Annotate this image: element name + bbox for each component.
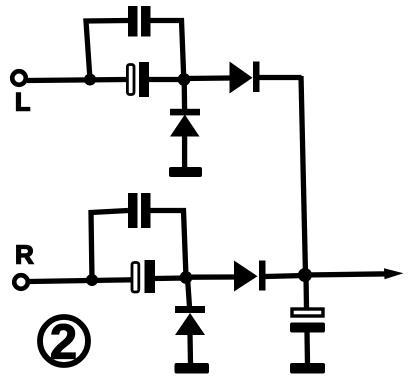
wire: D4 to node E xyxy=(266,276,305,277)
wire: C2 to node B xyxy=(149,77,184,82)
input terminal R xyxy=(14,275,28,289)
node C junction xyxy=(86,274,98,286)
ground (output) xyxy=(290,363,325,374)
capacitor C1 xyxy=(128,6,151,37)
input terminal L xyxy=(12,71,26,85)
node E output junction xyxy=(298,268,312,282)
wire: node D to D4 xyxy=(186,274,235,280)
wire: C1 to node B via corner xyxy=(151,21,184,80)
diode D2 (series) xyxy=(230,62,260,94)
wire: C5 to ground xyxy=(304,332,310,364)
diode D4 (series) xyxy=(234,261,266,292)
wire: node D down to D3 xyxy=(188,278,190,308)
svg-text:L: L xyxy=(15,89,30,117)
capacitor C4 (electrolytic, hollow + plate) xyxy=(132,260,155,293)
label R xyxy=(15,240,34,270)
node D junction xyxy=(180,271,193,284)
svg-text:2: 2 xyxy=(50,316,77,370)
ground (L) xyxy=(169,167,202,177)
wire: node C up to C3 branch xyxy=(91,211,128,281)
wire: output with arrowhead xyxy=(305,268,404,279)
wire: C3 to node D via corner xyxy=(151,211,187,278)
wire: node B to D2 xyxy=(184,75,231,81)
node A junction xyxy=(84,74,96,86)
figure number 2 (circled) xyxy=(40,316,88,370)
node B junction xyxy=(178,73,191,86)
wire: node A up to C1 branch xyxy=(86,21,128,80)
wire: node E down to C5 xyxy=(303,276,309,309)
capacitor C5 (electrolytic to ground, hollow top plate) xyxy=(290,309,325,333)
wire: R input to node C xyxy=(29,280,132,282)
diode D1 (shunt, cathode up) xyxy=(170,109,200,168)
diode D3 (shunt, cathode up) xyxy=(175,306,205,364)
label L xyxy=(15,89,30,117)
ground (R) xyxy=(175,363,210,374)
wire: vertical bus L to node E xyxy=(301,76,306,274)
capacitor C2 (electrolytic, hollow + plate) xyxy=(127,62,149,97)
capacitor C3 xyxy=(128,193,151,228)
wire: L input to node A xyxy=(27,80,126,81)
wire: node B down to D1 xyxy=(182,80,188,111)
wire: D2 to output bus xyxy=(259,75,302,80)
wire: C4 to node D xyxy=(155,275,186,281)
svg-text:R: R xyxy=(15,240,34,270)
